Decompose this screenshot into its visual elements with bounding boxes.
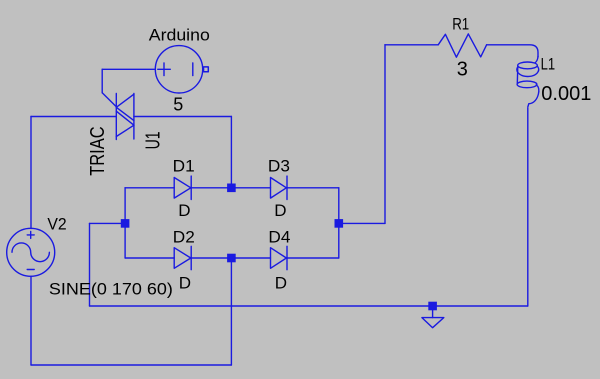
- wire bridge left rail: [124, 188, 126, 258]
- svg-text:R1: R1: [452, 15, 469, 34]
- svg-text:D: D: [178, 201, 190, 220]
- diode D3: [231, 176, 338, 199]
- wire V2 bottom vertical: [30, 276, 32, 365]
- svg-text:D: D: [179, 274, 191, 293]
- node bridge left: [121, 219, 130, 228]
- wire TRIAC MT2 to bridge top: [134, 117, 232, 188]
- voltage source V2: [7, 228, 55, 276]
- node ground: [428, 302, 437, 311]
- diode D1: [125, 176, 231, 199]
- node bridge right: [335, 219, 344, 228]
- svg-text:0.001: 0.001: [541, 83, 591, 105]
- wire node left to lower rail: [90, 223, 126, 306]
- svg-text:V2: V2: [47, 215, 66, 234]
- wire bridge right rail: [338, 188, 340, 258]
- wire lower rail: [90, 305, 528, 307]
- wire bottom rail riser to bridge: [230, 258, 232, 365]
- wire bottom rail: [31, 364, 231, 366]
- svg-text:L1: L1: [541, 55, 556, 74]
- wire V2 top vertical: [30, 117, 32, 229]
- triac U1: [116, 94, 134, 140]
- svg-text:D2: D2: [173, 228, 195, 247]
- svg-text:D: D: [274, 201, 286, 220]
- wire TRIAC gate: [102, 69, 155, 107]
- svg-text:D4: D4: [268, 228, 290, 247]
- diode D2: [125, 246, 231, 269]
- svg-text:TRIAC: TRIAC: [87, 126, 109, 175]
- svg-text:D1: D1: [173, 157, 195, 176]
- svg-text:D: D: [275, 274, 287, 293]
- diode D4: [231, 246, 338, 269]
- inductor L1: [517, 57, 539, 108]
- svg-text:5: 5: [173, 94, 183, 114]
- svg-text:3: 3: [457, 58, 468, 80]
- resistor R1: [438, 34, 486, 57]
- node bridge top: [227, 184, 236, 193]
- svg-text:D3: D3: [268, 157, 290, 176]
- wire R1 to L1: [487, 45, 538, 57]
- wire L1 bottom to ground rail: [527, 108, 529, 306]
- wire output node to R1 riser: [339, 45, 438, 224]
- node bridge bottom: [227, 254, 236, 263]
- svg-text:SINE(0 170 60): SINE(0 170 60): [49, 279, 173, 298]
- voltage source Arduino: [155, 46, 203, 93]
- unconnected pin square of Arduino: [204, 67, 209, 72]
- svg-text:Arduino: Arduino: [149, 26, 210, 45]
- wire V2 top to TRIAC MT1: [31, 116, 116, 118]
- ground: [422, 309, 444, 328]
- svg-text:U1: U1: [142, 131, 164, 149]
